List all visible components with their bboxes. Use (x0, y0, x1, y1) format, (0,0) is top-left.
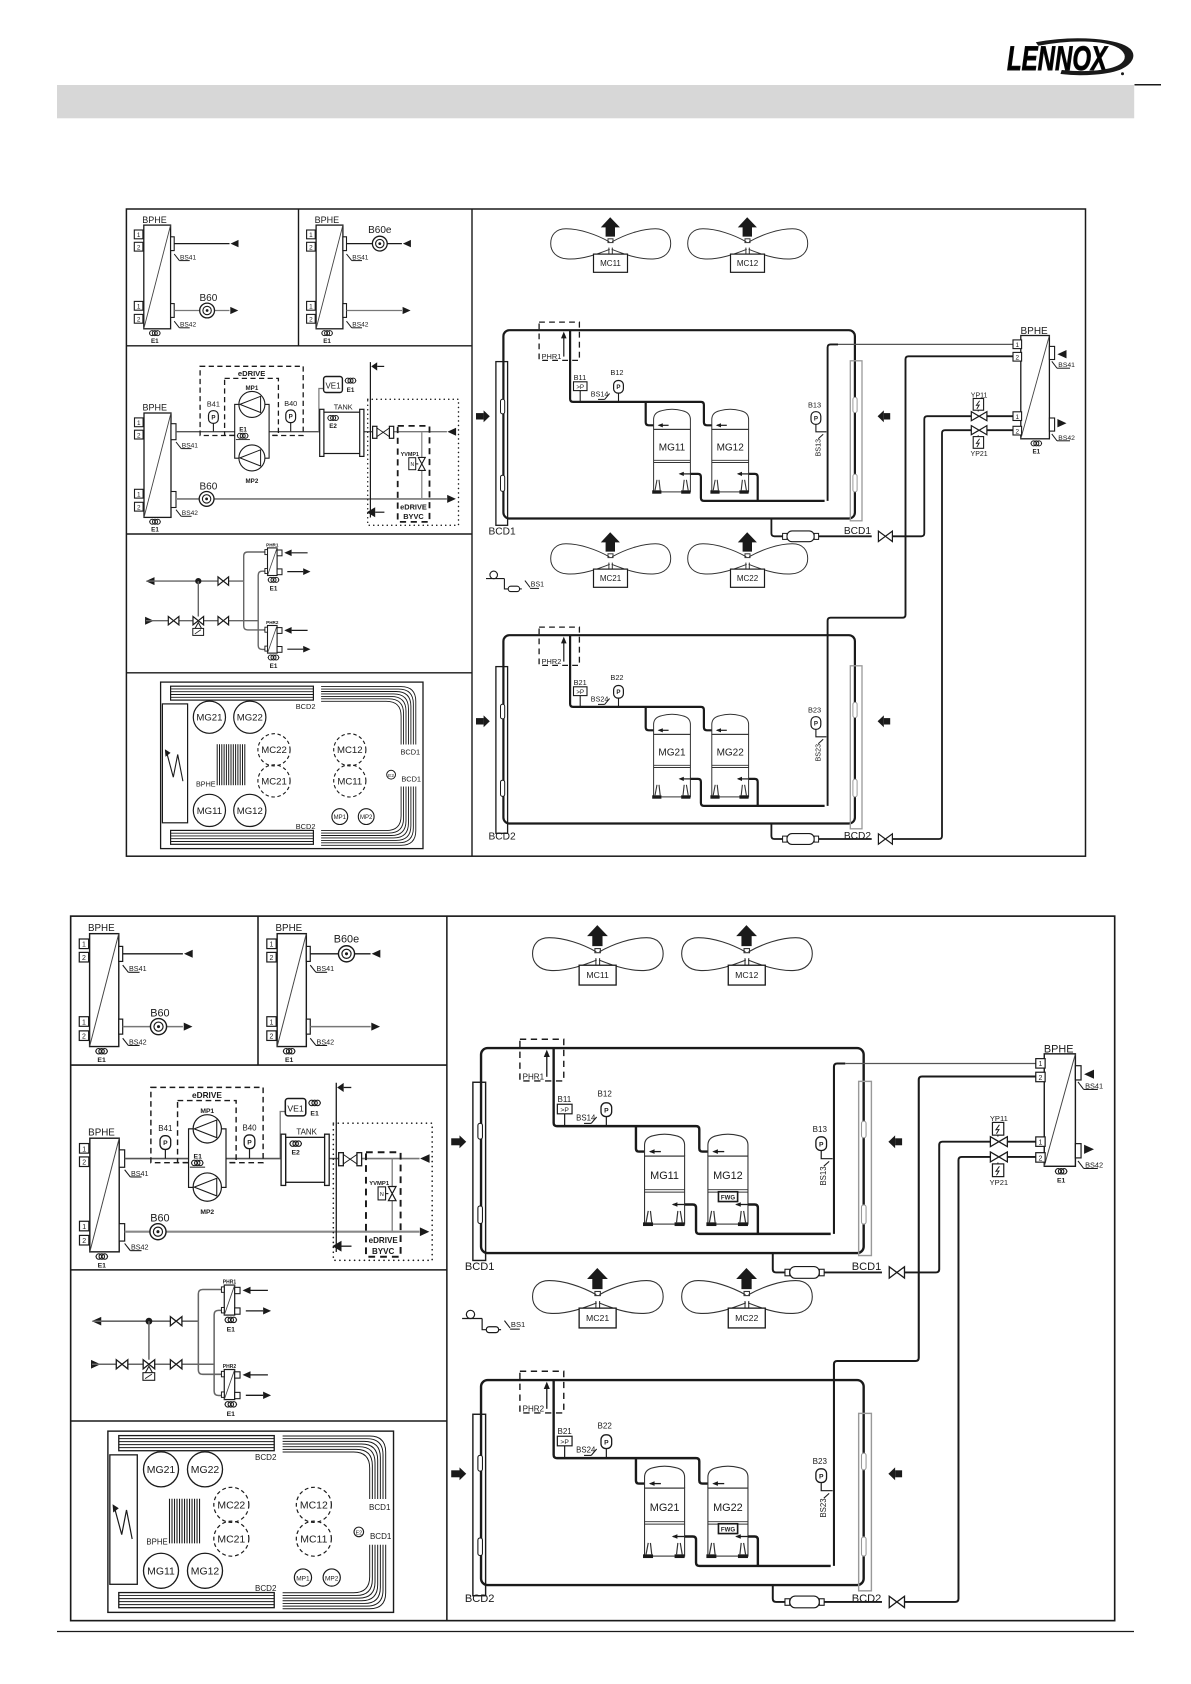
wire upper pipe tank to connector (329, 1158, 338, 1160)
suction drop circuit 1 (554, 1048, 708, 1152)
fan MC11 (plan) (334, 765, 366, 797)
svg-text:B60e: B60e (334, 933, 359, 945)
wire upper pipe tank to connector (364, 431, 373, 433)
arrow suction MG22 (717, 729, 727, 731)
airflow arrow left circuit 2 (459, 1467, 466, 1480)
svg-text:1: 1 (270, 1019, 274, 1026)
BPHE hatched block (plan) (169, 1499, 171, 1544)
fan MC11 blades (551, 229, 610, 259)
tab BS41 port (panel 1b) (306, 946, 310, 961)
wire YP21 to port 2 lower (1007, 1156, 1035, 1158)
fan motor MG21 (plan) (143, 1452, 178, 1487)
wire hot gas 2 to port 2 (834, 1076, 1036, 1565)
label MC22 (728, 1308, 765, 1328)
svg-text:1: 1 (82, 1146, 86, 1153)
svg-text:2: 2 (82, 1238, 86, 1245)
coil bank BCD2 bottom-left (171, 830, 314, 844)
coil bank BCD1 bottom-right (283, 1545, 386, 1609)
arrow supply in (panel 3) (91, 1360, 100, 1369)
svg-text:MP1: MP1 (296, 1575, 310, 1582)
fan MC12 (plan) (334, 734, 366, 766)
svg-text:VE1: VE1 (325, 382, 341, 391)
svg-text:1: 1 (82, 1019, 86, 1026)
valve YVMP1 (418, 457, 425, 470)
compressor MG12 seam (712, 459, 749, 461)
coil BCD2 right slots (861, 1453, 866, 1470)
refrigerant loop circuit 2 (503, 635, 855, 823)
valve supply 2 (218, 617, 229, 625)
PHR2 left stubs (221, 1371, 224, 1376)
svg-text:B60e: B60e (368, 225, 392, 236)
svg-text:1: 1 (137, 232, 141, 239)
fan motor MG11 (plan) (193, 794, 225, 826)
wire drier to valve circuit 2 (824, 1601, 882, 1603)
svg-text:BS41: BS41 (182, 443, 198, 450)
wire VE1 connector (319, 389, 324, 432)
heater coil E1 (manifold) (238, 433, 243, 438)
eDRIVE inner dashed box (178, 1101, 237, 1163)
svg-text:B60: B60 (150, 1212, 169, 1224)
svg-text:MG22: MG22 (237, 713, 263, 724)
svg-text:PHR2: PHR2 (266, 620, 279, 625)
heater E2 (plan) (387, 770, 396, 779)
svg-text:2: 2 (309, 317, 313, 324)
wire upper pipe connector to outlet (362, 1158, 420, 1160)
svg-text:eDRIVE: eDRIVE (238, 369, 265, 378)
svg-text:PHR1: PHR1 (542, 352, 562, 361)
svg-text:E1: E1 (347, 387, 355, 394)
port 2 box BPHE y426.3 (1036, 1153, 1045, 1162)
svg-text:1: 1 (1016, 414, 1020, 421)
fan motor MG21 (plan) (193, 701, 225, 733)
svg-text:MC22: MC22 (737, 574, 759, 583)
svg-text:BCD2: BCD2 (296, 822, 316, 831)
block outer frame (126, 209, 1085, 856)
wire upper pipe manifold to tank (226, 1158, 281, 1160)
svg-text:P: P (616, 384, 620, 391)
wire lower supply line (92, 1363, 214, 1365)
heater coil E1 (PHR2) (225, 1402, 230, 1407)
fan MC12 air arrow (736, 925, 757, 946)
svg-text:MG22: MG22 (713, 1502, 743, 1514)
wire B41 stem (212, 423, 214, 431)
arrow boundary top (371, 362, 377, 370)
svg-text:FWG: FWG (721, 1194, 735, 1201)
label BS41 (panel 2) (176, 442, 181, 449)
svg-text:P: P (163, 1140, 168, 1147)
arrow suction MG11 (650, 1151, 661, 1153)
svg-text:N: N (410, 462, 414, 468)
svg-text:BS42: BS42 (182, 510, 198, 517)
arrow suction MG22 (714, 1483, 725, 1485)
heater coil E1 (PHR1) (268, 577, 273, 582)
compressor MG12 shell (712, 409, 749, 429)
svg-text:BS42: BS42 (129, 1038, 147, 1046)
PHR2 dashed box (520, 1371, 564, 1413)
compressor MG12 shell (708, 1134, 748, 1156)
gauge B40 (244, 1135, 255, 1149)
gauge B23 (811, 717, 821, 730)
svg-text:MC22: MC22 (217, 1501, 245, 1512)
fan MC11 hub (595, 949, 600, 953)
svg-text:P: P (814, 720, 818, 727)
svg-text:1: 1 (137, 420, 141, 427)
wire B21 stem (579, 696, 581, 707)
coil BCD2 left (496, 667, 508, 834)
tank left flange (320, 409, 324, 456)
left column divider (446, 916, 448, 1621)
wire drier to valve circuit 1 (819, 535, 872, 537)
compressor MG22 body (708, 1488, 748, 1556)
valve YP21 (971, 426, 987, 435)
tab BS42 port (panel 1b) (306, 1019, 310, 1034)
label BS41 (condenser) (1052, 361, 1057, 368)
wire upper pipe BPHE to pump manifold (176, 431, 235, 433)
svg-text:E1: E1 (227, 1411, 236, 1418)
fan MC22 air arrow (736, 1268, 757, 1289)
svg-text:BS41: BS41 (1085, 1081, 1103, 1090)
svg-text:PHR1: PHR1 (523, 1072, 545, 1081)
fan MC21 (plan) (258, 765, 290, 797)
eDRIVE outer dashed box (151, 1087, 263, 1162)
wire B21 stem (564, 1446, 566, 1458)
svg-text:B60: B60 (200, 293, 218, 304)
filter drier circuit 1 (783, 533, 787, 539)
coil BCD2 left slots (501, 704, 505, 719)
svg-text:PHR2: PHR2 (523, 1404, 545, 1413)
arrow discharge MG12 (738, 473, 748, 475)
compressor MG21 shell (654, 714, 691, 734)
wire B11 stem (579, 391, 581, 402)
coil BCD2 right (850, 666, 862, 829)
wire riser B (214, 1310, 221, 1395)
suction drop circuit 2 (554, 1380, 708, 1484)
BPHE hatched block (plan) (216, 744, 218, 785)
compressor MG11 seam (654, 459, 691, 461)
coil bank BCD1 top-right (321, 687, 416, 745)
arrow discharge MG21 (673, 1536, 684, 1538)
svg-text:TANK: TANK (296, 1128, 317, 1137)
svg-text:BCD2: BCD2 (465, 1593, 495, 1605)
fan MC22 blades (682, 1281, 746, 1314)
svg-text:BCD1: BCD1 (401, 774, 421, 783)
pressure switch B21 (574, 687, 588, 696)
discharge pipe MG12 (748, 1204, 758, 1233)
refrigerant loop circuit 1 (503, 330, 855, 518)
label BS1 (525, 581, 530, 588)
pump manifold (235, 404, 269, 458)
eDRIVE inner dashed box (225, 378, 279, 435)
pressure switch B11 (557, 1104, 572, 1114)
svg-text:E1: E1 (98, 1262, 107, 1269)
compressor MG22 seam (712, 764, 749, 766)
row divider 2 (71, 1269, 447, 1271)
coil BCD2 left (473, 1414, 486, 1595)
svg-text:E1: E1 (270, 586, 278, 593)
PHR1 arrow (563, 337, 565, 356)
pump manifold (189, 1129, 226, 1188)
sensor B60 (panel 1a) (150, 1019, 166, 1035)
port 2 box BPHE y352.4 (1013, 352, 1022, 361)
svg-text:MG22: MG22 (717, 747, 745, 758)
compressor MG22 body (712, 734, 749, 797)
coil BCD2 left slots (478, 1455, 483, 1471)
discharge pipe MG22 (749, 779, 758, 806)
PHR1 dashed box (539, 322, 579, 360)
fan MC11 blades (533, 938, 597, 971)
tab BS41 port (panel 1b) (343, 237, 347, 251)
airflow arrow right circuit 1 (888, 1135, 895, 1148)
block outer frame (71, 916, 1115, 1621)
compressor MG21 shell (645, 1466, 685, 1488)
discharge pipe MG21 (685, 1537, 831, 1566)
compressor MG21 body (645, 1488, 685, 1556)
heat exchanger PHR2 (224, 1370, 234, 1400)
svg-text:B22: B22 (610, 673, 623, 682)
fan MC22 (plan) (214, 1487, 249, 1522)
svg-text:PHR1: PHR1 (266, 542, 279, 547)
wire upper pipe BPHE to pump manifold (125, 1158, 189, 1160)
pump MP2 (239, 445, 265, 471)
svg-text:P: P (211, 414, 215, 421)
svg-text:BPHE: BPHE (88, 923, 115, 934)
airflow arrow right circuit 2 (878, 715, 884, 727)
pump MP2 (193, 1173, 221, 1201)
svg-text:MC11: MC11 (586, 970, 609, 980)
wire B41 stem (164, 1149, 166, 1158)
wire hot gas 1 to port 1 (845, 1063, 1035, 1065)
wire liquid 2 from loop (773, 1585, 789, 1602)
wire B23 stem (816, 729, 827, 737)
svg-text:>P: >P (560, 1439, 569, 1446)
svg-text:BS41: BS41 (317, 965, 335, 973)
svg-text:BS42: BS42 (1058, 435, 1075, 442)
svg-text:1: 1 (309, 232, 313, 239)
svg-text:BS41: BS41 (180, 255, 196, 262)
svg-text:P: P (616, 689, 620, 696)
coil BCD2 right (859, 1413, 872, 1590)
plan outline (161, 682, 423, 849)
pump MP1 (193, 1115, 221, 1143)
wire riser A (198, 1290, 221, 1322)
heater coil E1 (PHR2) (268, 655, 273, 660)
wire riser A (244, 552, 265, 581)
arrow water out (condenser) (1084, 1070, 1094, 1079)
wire liquid 2 to YP21 (892, 430, 971, 839)
solenoid YP21 (973, 437, 983, 449)
gauge B12 (601, 1103, 612, 1117)
svg-text:BPHE: BPHE (143, 403, 168, 413)
port 1 box BPHE y339.9 (1013, 340, 1022, 349)
three-way valve (143, 1360, 155, 1369)
compressor MG22 seam (708, 1521, 748, 1523)
svg-text:BCD2: BCD2 (255, 1584, 277, 1593)
svg-text:E2: E2 (356, 1531, 362, 1537)
diagram block 1 (two-pump unit) (126, 209, 1085, 856)
eDRIVE outer dashed box (200, 366, 303, 435)
svg-text:BS23: BS23 (819, 1498, 828, 1518)
tab BS42 (condenser) (1075, 1144, 1081, 1158)
arrow suction MG21 (650, 1483, 661, 1485)
svg-text:PHR1: PHR1 (223, 1279, 237, 1285)
arrow supply in (panel 3) (145, 617, 154, 625)
svg-text:BS13: BS13 (814, 439, 823, 457)
arrow boundary top (337, 1083, 344, 1092)
svg-text:B21: B21 (574, 678, 587, 687)
label MC22 (731, 569, 765, 587)
arrow suction MG21 (659, 729, 669, 731)
label BS41 (panel 1a) (123, 965, 129, 972)
arrow boundary bottom (367, 507, 375, 517)
valve liquid circuit 2 (878, 834, 892, 844)
svg-text:B41: B41 (158, 1124, 173, 1133)
svg-text:BCD1: BCD1 (844, 526, 872, 537)
wire B11 stem (564, 1114, 566, 1126)
heater coil E1 (condenser) (1031, 441, 1036, 446)
discharge pipe MG21 (690, 779, 824, 806)
svg-text:BS42: BS42 (131, 1243, 149, 1251)
module boundary line (335, 1083, 337, 1252)
wire YP21 to port 2 lower (987, 429, 1013, 431)
svg-text:P: P (604, 1439, 609, 1446)
compressor MG21 body (654, 734, 691, 797)
flex connector plate R (357, 1153, 362, 1166)
arrow lower pipe (420, 1227, 429, 1236)
wire liquid 1 from loop (773, 1253, 789, 1272)
coil bank BCD2 bottom-left (119, 1593, 274, 1608)
compressor MG11 body (654, 429, 691, 492)
discharge pipe MG12 (749, 474, 758, 501)
arrow return out (panel 3) (146, 577, 155, 585)
svg-text:B23: B23 (813, 1457, 828, 1466)
svg-text:BS42: BS42 (180, 322, 196, 329)
svg-text:>P: >P (576, 384, 584, 391)
wire leaving water outlet (panel 1a) (174, 243, 229, 245)
svg-text:BPHE: BPHE (315, 215, 340, 225)
wire B12 stem (618, 393, 620, 402)
fan MC21 air arrow (601, 532, 620, 551)
port 1 box BPHE y339.9 (1036, 1059, 1045, 1068)
fan motor MG22 (plan) (187, 1452, 222, 1487)
compressor MG21 feet (646, 1543, 652, 1554)
fan MC22 hub (744, 1291, 749, 1295)
svg-text:E1: E1 (239, 427, 247, 434)
row divider 1 (126, 345, 472, 347)
arrow water out (panel 1a) (231, 240, 239, 247)
arrow water in (condenser) (1084, 1145, 1094, 1154)
svg-text:E1: E1 (97, 1057, 106, 1064)
svg-text:MG21: MG21 (650, 1502, 680, 1514)
footer rule (57, 1631, 1134, 1633)
gauge B22 (601, 1435, 612, 1449)
svg-text:MC11: MC11 (600, 259, 621, 268)
wire water inlet (panel 1a) (123, 1026, 183, 1028)
valve liquid circuit 1 (889, 1267, 904, 1278)
flex connector cross (377, 428, 390, 437)
PHR1 dashed box (520, 1039, 564, 1081)
svg-text:2: 2 (137, 432, 141, 439)
svg-text:E1: E1 (151, 527, 159, 534)
compressor MG12 feet (713, 480, 718, 491)
gauge B13 (816, 1137, 827, 1151)
svg-text:MC21: MC21 (586, 1313, 609, 1323)
label MC21 (594, 569, 628, 587)
svg-text:B12: B12 (610, 368, 623, 377)
svg-text:MG11: MG11 (197, 806, 222, 817)
heater coil E2 (tank) (290, 1141, 295, 1146)
pump MP1 (plan) (332, 809, 348, 825)
label BS42 (condenser) (1052, 434, 1057, 441)
flow switch BS1 (490, 571, 498, 579)
heater coil E2 (tank) (328, 416, 333, 421)
svg-text:eDRIVE: eDRIVE (369, 1236, 399, 1245)
PHR2 dashed box (539, 627, 579, 665)
heat exchanger PHR1 (268, 548, 278, 576)
svg-text:BCD1: BCD1 (369, 1503, 391, 1512)
pressure switch B21 (557, 1436, 572, 1446)
svg-text:PHR2: PHR2 (542, 657, 562, 666)
valve YP21 (990, 1152, 1007, 1162)
svg-text:MP2: MP2 (200, 1209, 214, 1216)
suction branch MG11 (646, 402, 654, 425)
svg-text:BYVC: BYVC (372, 1247, 395, 1256)
svg-text:1: 1 (137, 304, 141, 311)
tab BS42 port (panel 1b) (343, 304, 347, 318)
svg-text:P: P (289, 414, 293, 421)
compressor MG12 feet (709, 1211, 715, 1222)
solenoid YVMP1 box (409, 458, 416, 470)
svg-text:1: 1 (1039, 1061, 1043, 1068)
fan MC12 blades (682, 938, 746, 971)
wire hot gas 1 to port 1 (838, 343, 1013, 345)
svg-text:E2: E2 (388, 773, 394, 779)
refrigerant loop circuit 1 (481, 1048, 864, 1253)
svg-text:BPHE: BPHE (276, 923, 303, 934)
svg-text:B40: B40 (242, 1123, 257, 1132)
flex connector cross (343, 1155, 357, 1164)
filter drier circuit 1 (785, 1269, 790, 1276)
header rule right (1135, 84, 1162, 86)
svg-text:MC12: MC12 (735, 970, 758, 980)
valve supply 2 (170, 1360, 182, 1369)
arrow upper pipe outlet (447, 428, 456, 436)
arrow discharge MG21 (680, 778, 690, 780)
PHR1 arrow (546, 1056, 548, 1077)
filter drier circuit 2 (785, 1599, 790, 1606)
tab BS41 (condenser) (1075, 1066, 1081, 1080)
row divider 2 (126, 533, 472, 535)
svg-text:B12: B12 (598, 1090, 613, 1099)
svg-text:B11: B11 (574, 373, 587, 382)
wire water inlet (panel 1a) (174, 310, 229, 312)
arrow discharge MG12 (736, 1203, 747, 1205)
suction drop circuit 1 (570, 330, 712, 425)
wire water outlet (panel 1b) (347, 243, 402, 245)
svg-text:2: 2 (137, 317, 141, 324)
label MC12 (731, 254, 765, 272)
dotted enclosure eDRIVE BYVC (333, 1123, 432, 1260)
gauge B13 (811, 412, 821, 425)
fan MC12 (plan) (296, 1487, 331, 1522)
compressor MG11 seam (645, 1189, 685, 1191)
suction branch MG21 (646, 707, 654, 730)
svg-text:E1: E1 (310, 1110, 319, 1117)
sensor B60 (panel 2) (199, 492, 214, 507)
valve YVMP1 (388, 1187, 396, 1201)
coil BCD1 right (859, 1081, 872, 1255)
solenoid YVMP1 box (378, 1187, 386, 1200)
svg-text:BCD2: BCD2 (852, 1593, 882, 1605)
